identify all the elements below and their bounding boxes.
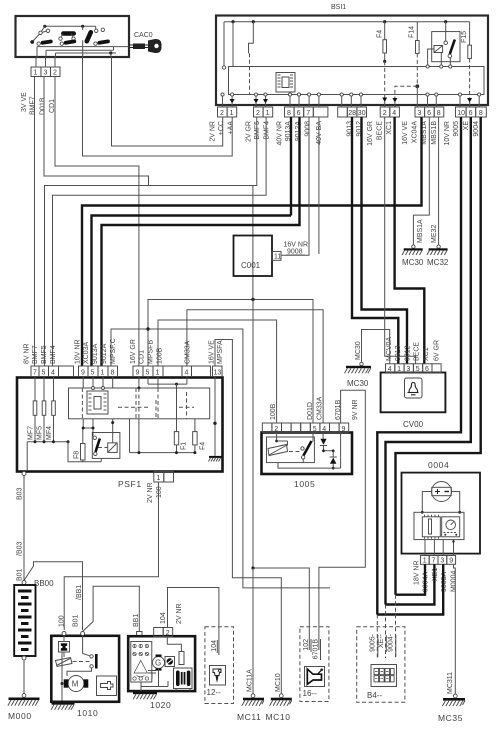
svg-text:8: 8: [111, 370, 115, 377]
battery BB00: [14, 579, 54, 694]
wire MPSF: [111, 329, 330, 588]
svg-text:M: M: [72, 680, 79, 689]
fuse MF7: [34, 377, 36, 401]
PSF1 pin row: [31, 366, 222, 377]
svg-text:F1: F1: [181, 442, 188, 450]
svg-text:F14: F14: [409, 26, 416, 38]
wire staircase: [249, 22, 254, 54]
ground MC32: [427, 225, 449, 267]
wire 9013A thick: [290, 117, 292, 216]
svg-text:6: 6: [469, 110, 473, 117]
svg-text:100: 100: [156, 486, 163, 498]
wire CM33A: [187, 310, 323, 423]
svg-text:40V BA: 40V BA: [316, 121, 323, 145]
svg-text:MC10: MC10: [266, 712, 291, 722]
bottom rail: [141, 669, 168, 692]
wire XE1 thick: [386, 564, 435, 604]
battery symbol: [432, 482, 452, 502]
wire MC11A to ground: [252, 568, 254, 694]
svg-text:40V NR: 40V NR: [277, 121, 284, 146]
svg-text:BMF7: BMF7: [30, 96, 37, 115]
diode bridge: [131, 642, 152, 683]
svg-text:8V NR: 8V NR: [24, 343, 31, 364]
svg-text:MC10: MC10: [275, 673, 282, 692]
fuse MF5: [43, 377, 45, 401]
wire BMF4: [53, 117, 267, 366]
fuse F15: [461, 22, 472, 107]
svg-text:10V NR: 10V NR: [75, 339, 82, 364]
ground MC11: [237, 669, 264, 722]
svg-text:2: 2: [383, 110, 387, 117]
wire 6701B: [319, 390, 365, 650]
wire MBS1B: [438, 117, 440, 245]
svg-text:9012: 9012: [404, 345, 411, 361]
switch 3: [84, 29, 94, 44]
connector symbol in PSF1: [87, 391, 108, 414]
wire: [223, 22, 225, 67]
wire D01B: [44, 77, 149, 186]
svg-text:9005-: 9005-: [370, 633, 377, 652]
svg-text:XC04A: XC04A: [412, 121, 419, 144]
instrument cluster 0004: [402, 460, 481, 556]
svg-text:5: 5: [313, 426, 317, 433]
svg-text:9004: 9004: [473, 121, 480, 137]
svg-text:9: 9: [136, 370, 140, 377]
svg-text:/B03: /B03: [17, 541, 24, 556]
svg-text:BMF4: BMF4: [50, 345, 57, 364]
wire 9012 thick: [362, 117, 408, 364]
svg-text:104: 104: [160, 612, 167, 624]
svg-text:G: G: [155, 659, 161, 668]
svg-text:3: 3: [406, 366, 410, 373]
svg-text:BSI1: BSI1: [331, 4, 346, 11]
PSF1 relay: [92, 433, 120, 459]
fuse MF4: [53, 377, 55, 401]
wire 100: [64, 482, 158, 630]
horn unit CV00: [381, 373, 446, 430]
1005 pin row: [262, 396, 359, 433]
wire dashed XC1 feed: [395, 86, 417, 98]
svg-text:XE--: XE--: [378, 633, 385, 648]
svg-text:ME32: ME32: [431, 225, 438, 243]
svg-text:9008: 9008: [287, 249, 303, 256]
BSI inner box bottom pin circles and stubs: [221, 93, 481, 107]
capacitor: [148, 671, 156, 680]
svg-text:MF7: MF7: [28, 426, 35, 440]
svg-text:5: 5: [42, 370, 46, 377]
fuse F4: [377, 22, 388, 107]
ground MC35: [438, 672, 465, 723]
svg-text:9013A: 9013A: [92, 343, 99, 364]
CV00 pin row: [386, 337, 442, 373]
svg-text:16V GR: 16V GR: [367, 121, 374, 146]
svg-text:MC32: MC32: [427, 258, 449, 267]
svg-text:CM33A: CM33A: [185, 340, 192, 364]
wire: [232, 22, 234, 67]
internal ground: [214, 377, 216, 456]
svg-text:2: 2: [220, 110, 224, 117]
svg-text:2V NR: 2V NR: [147, 482, 154, 503]
svg-text:9008: 9008: [304, 121, 311, 137]
wire 104: [168, 588, 219, 656]
wire 9005 thick: [377, 117, 461, 615]
svg-text:10: 10: [457, 110, 465, 117]
accessory box: [97, 676, 117, 696]
pin stubs: [425, 540, 454, 556]
solenoid: [59, 642, 70, 653]
wire MBS1A: [413, 117, 429, 245]
connector 3V VE pins 1 3 2: [31, 57, 60, 77]
1005 interior relay: [267, 433, 341, 470]
fan box: [165, 657, 175, 667]
svg-text:8: 8: [437, 110, 441, 117]
fuse F1: [176, 384, 178, 432]
svg-text:MBS1A: MBS1A: [417, 219, 424, 243]
svg-text:5: 5: [416, 366, 420, 373]
wire 9005A thick: [377, 564, 443, 614]
svg-text:6V GR: 6V GR: [433, 340, 440, 361]
svg-text:18V NR: 18V NR: [414, 560, 421, 585]
svg-text:30: 30: [358, 110, 366, 117]
ground hatch: [52, 703, 75, 705]
svg-text:XC03A: XC03A: [83, 341, 90, 364]
svg-text:F4: F4: [200, 442, 207, 450]
svg-text:6701B: 6701B: [312, 639, 319, 660]
svg-text:0004: 0004: [428, 460, 449, 470]
key symbol: [130, 39, 162, 53]
svg-text:4: 4: [51, 370, 55, 377]
svg-text:BMF7: BMF7: [32, 345, 39, 364]
svg-text:MC11A: MC11A: [247, 669, 254, 692]
svg-text:F4: F4: [377, 30, 384, 38]
svg-text:BECE: BECE: [414, 342, 421, 361]
svg-text:MPSFA: MPSFA: [217, 340, 224, 364]
fuse F14: [409, 22, 420, 107]
svg-text:9: 9: [81, 370, 85, 377]
svg-text:MF4: MF4: [46, 426, 53, 440]
svg-text:11: 11: [274, 254, 281, 261]
interconnector B4: [357, 627, 405, 703]
output rail: [130, 419, 196, 453]
svg-text:5: 5: [91, 370, 95, 377]
svg-text:6: 6: [425, 366, 429, 373]
svg-text:9012A: 9012A: [101, 343, 108, 364]
connector symbol in BSI: [276, 73, 295, 93]
svg-text:MC30: MC30: [355, 341, 362, 360]
svg-text:BMF5: BMF5: [254, 121, 261, 140]
svg-text:9013: 9013: [395, 345, 402, 361]
supply rail: [27, 441, 68, 443]
fuse F8: [68, 442, 101, 462]
internal supply bus: [224, 21, 470, 23]
fuse F4b: [194, 419, 196, 432]
wire D01D: [148, 300, 313, 424]
svg-text:3: 3: [418, 110, 422, 117]
svg-text:1: 1: [230, 110, 234, 117]
wire +CC: [112, 57, 223, 146]
inner connector box: [69, 388, 210, 419]
PSF1 bottom pin B03: [22, 472, 26, 476]
svg-text:MC311: MC311: [447, 672, 454, 694]
relay unit 1005: [262, 433, 353, 490]
wire /BB1: [24, 562, 83, 630]
svg-text:8: 8: [479, 110, 483, 117]
svg-text:16V GR: 16V GR: [130, 339, 137, 364]
wire 9004 thick: [396, 117, 481, 595]
svg-text:MPSF.C: MPSF.C: [110, 338, 117, 364]
svg-text:F15: F15: [461, 31, 468, 43]
svg-text:MC30: MC30: [402, 258, 424, 267]
svg-text:1005: 1005: [294, 479, 315, 489]
wire BECE: [385, 117, 416, 364]
svg-text:2: 2: [53, 70, 57, 77]
svg-text:3: 3: [44, 70, 48, 77]
BSI1 pin row boxes: [218, 107, 487, 117]
svg-text:7: 7: [432, 558, 436, 565]
wire 102 to horn: [253, 300, 309, 651]
svg-text:5: 5: [146, 370, 150, 377]
brush box: [174, 668, 193, 689]
horn 16 box: [300, 627, 329, 702]
fuse box PSF1: [17, 378, 223, 490]
svg-text:16V VE: 16V VE: [209, 340, 216, 364]
svg-text:+AA: +AA: [228, 121, 235, 135]
svg-text:1: 1: [423, 558, 427, 565]
contact: [83, 636, 90, 656]
ignition switch CAC0 box: [16, 16, 130, 57]
ground MC30 upper: [402, 219, 424, 267]
coil: [56, 658, 73, 667]
connector 2V NR pin 2: [154, 628, 164, 637]
svg-text:XC1: XC1: [423, 347, 430, 361]
svg-text:B01: B01: [17, 568, 24, 581]
svg-text:7: 7: [306, 110, 310, 117]
svg-text:2: 2: [166, 630, 170, 637]
svg-text:6: 6: [427, 110, 431, 117]
svg-text:9: 9: [342, 426, 346, 433]
svg-text:1: 1: [157, 475, 161, 482]
wire BMF5: [45, 117, 257, 366]
svg-text:+CC: +CC: [218, 121, 225, 135]
svg-text:16--: 16--: [303, 689, 318, 698]
svg-text:BECE: BECE: [376, 121, 383, 140]
wire spare pin: [318, 117, 320, 254]
svg-text:BMF5: BMF5: [41, 345, 48, 364]
svg-text:9: 9: [449, 558, 453, 565]
ground MC10: [266, 673, 292, 722]
svg-text:B03: B03: [17, 487, 24, 500]
svg-text:MC35: MC35: [438, 713, 463, 723]
ground hatch 1020: [133, 692, 157, 694]
connector C001: [234, 236, 309, 277]
svg-text:12--: 12--: [207, 688, 222, 697]
svg-text:CD1: CD1: [139, 350, 146, 364]
svg-text:4: 4: [322, 426, 326, 433]
svg-text:100B: 100B: [270, 403, 277, 420]
wire 100B internal: [157, 377, 159, 389]
svg-text:9004-: 9004-: [388, 633, 395, 652]
wire 9004A thick: [396, 564, 426, 594]
svg-text:XC1: XC1: [386, 121, 393, 135]
svg-text:4: 4: [392, 110, 396, 117]
wire MPSFB internal: [147, 377, 149, 385]
svg-text:MC11: MC11: [237, 712, 261, 722]
PSF1 bottom connector 2V NR: [147, 472, 174, 504]
svg-text:1: 1: [397, 366, 401, 373]
0004 pin row: [414, 556, 458, 593]
wire 9012A thick: [102, 117, 300, 366]
svg-text:MC30: MC30: [347, 379, 369, 388]
svg-text:M0004: M0004: [451, 570, 458, 592]
svg-text:BB1: BB1: [133, 614, 140, 627]
wire +AA: [83, 57, 233, 156]
svg-text:MPSFB: MPSFB: [148, 340, 155, 364]
svg-text:7: 7: [33, 370, 37, 377]
svg-text:B01: B01: [73, 614, 80, 627]
internal wires pins 9 5 1 8: [83, 377, 113, 389]
BSI unit box BSI1: [216, 16, 488, 106]
wire 100B: [158, 320, 277, 423]
relay in BSI: [426, 22, 460, 68]
svg-text:D01B: D01B: [40, 97, 47, 115]
svg-text:1020: 1020: [150, 700, 171, 710]
svg-text:16V VE: 16V VE: [402, 121, 409, 145]
switch 1: [41, 26, 45, 31]
motor: [68, 676, 84, 692]
svg-text:CAC0: CAC0: [134, 32, 153, 39]
switch contacts inside CAC0: [30, 25, 129, 57]
G circle: [153, 657, 165, 669]
svg-text:4: 4: [388, 366, 392, 373]
svg-text:PSF1: PSF1: [118, 479, 142, 489]
svg-text:BB00: BB00: [34, 579, 54, 588]
wire M0004 to MC35: [454, 564, 456, 694]
svg-text:2V NR: 2V NR: [210, 121, 217, 142]
ground M000: [8, 694, 40, 721]
switch 2: [61, 31, 76, 35]
svg-text:28: 28: [348, 110, 356, 117]
svg-text:9V NR: 9V NR: [352, 399, 359, 420]
svg-text:100: 100: [59, 615, 66, 627]
svg-text:M000: M000: [8, 711, 32, 721]
PSF1 pin labels: [24, 338, 225, 364]
svg-text:100B: 100B: [157, 347, 164, 364]
svg-text:8: 8: [287, 110, 291, 117]
internal lower wires: [37, 46, 129, 48]
svg-text:3V VE: 3V VE: [21, 92, 28, 112]
wire CD1: [55, 77, 139, 367]
svg-text:MBS1B: MBS1B: [431, 121, 438, 145]
gauge block: [414, 512, 464, 539]
wire XC03A thick: [82, 117, 422, 366]
wire MCV0A to ground MC30: [362, 330, 390, 364]
svg-text:BMF4: BMF4: [264, 121, 271, 140]
svg-text:102: 102: [303, 639, 310, 651]
svg-text:104: 104: [211, 640, 218, 652]
wire B03: [23, 476, 25, 581]
svg-text:B4--: B4--: [367, 691, 382, 700]
svg-text:2V NR: 2V NR: [176, 603, 183, 624]
svg-text:3: 3: [440, 558, 444, 565]
BSI1 pin labels: [210, 121, 481, 146]
wire 9008: [281, 117, 309, 255]
PSF1 interior: [27, 377, 221, 472]
wire CD1 internal: [138, 377, 140, 389]
wire BB1: [83, 586, 140, 631]
svg-text:9005: 9005: [453, 121, 460, 137]
wire XE: [386, 117, 471, 605]
ground MC30 lower: [345, 341, 372, 388]
svg-text:4: 4: [185, 370, 189, 377]
dashed stubs into B4: [376, 615, 378, 661]
svg-text:MF5: MF5: [37, 426, 44, 440]
svg-text:C001: C001: [241, 261, 261, 270]
svg-text:2: 2: [274, 426, 278, 433]
wire 9013 thick: [352, 117, 398, 364]
wire BMF7: [34, 77, 36, 367]
svg-text:1: 1: [34, 70, 38, 77]
svg-text:F8: F8: [74, 451, 81, 459]
svg-text:1010: 1010: [77, 708, 98, 718]
svg-text:XE: XE: [463, 121, 470, 131]
svg-text:2: 2: [256, 110, 260, 117]
svg-text:CV00: CV00: [403, 420, 424, 429]
svg-text:6: 6: [297, 110, 301, 117]
BSI inner connector box: [229, 67, 485, 95]
starter 1010: [51, 632, 119, 719]
svg-text:1: 1: [266, 110, 270, 117]
labels 3V VE BMF7 D01B CD1: [21, 92, 56, 115]
wire MPSFA to ground MC10: [215, 340, 281, 695]
alternator 1020: [128, 628, 195, 711]
svg-text:2V GR: 2V GR: [246, 121, 253, 142]
svg-text:1: 1: [101, 370, 105, 377]
svg-text:10V NR: 10V NR: [444, 121, 451, 146]
oil switch 12 box: [205, 627, 234, 704]
svg-text:1: 1: [156, 370, 160, 377]
wire XC1 thick: [395, 117, 425, 364]
wire D01 branch down: [252, 186, 254, 300]
link rail: [148, 377, 187, 385]
svg-text:/BB1: /BB1: [76, 585, 83, 600]
regulator path: [167, 637, 181, 652]
svg-text:16V NR: 16V NR: [284, 242, 309, 249]
svg-text:13: 13: [214, 370, 222, 377]
